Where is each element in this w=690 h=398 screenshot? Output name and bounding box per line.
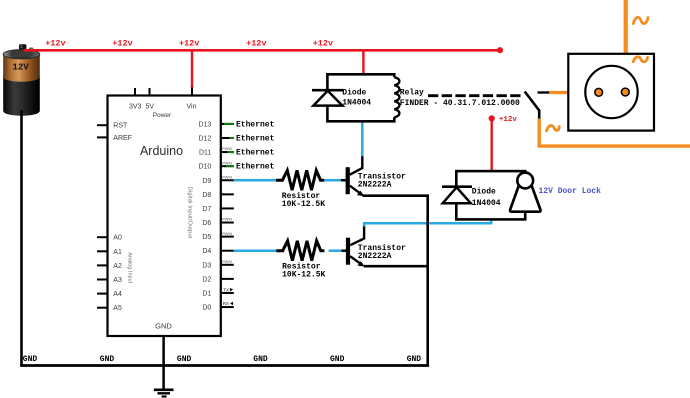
svg-text:GND: GND bbox=[23, 355, 38, 364]
svg-text:RX: RX bbox=[223, 301, 229, 306]
svg-text:A0: A0 bbox=[113, 235, 122, 242]
svg-text:A2: A2 bbox=[113, 263, 122, 270]
svg-text:+12v: +12v bbox=[499, 116, 518, 124]
svg-text:A1: A1 bbox=[113, 249, 122, 256]
svg-text:D12: D12 bbox=[198, 136, 211, 143]
svg-text:D0: D0 bbox=[202, 305, 211, 312]
svg-text:PWM: PWM bbox=[222, 231, 232, 236]
svg-text:D11: D11 bbox=[199, 150, 211, 157]
svg-text:D10: D10 bbox=[198, 164, 211, 171]
svg-text:Ethernet: Ethernet bbox=[236, 120, 275, 129]
svg-text:D6: D6 bbox=[202, 220, 211, 227]
svg-text:Ethernet: Ethernet bbox=[236, 149, 275, 158]
svg-text:PWM: PWM bbox=[222, 259, 232, 264]
svg-text:D4: D4 bbox=[202, 248, 211, 255]
svg-text:PWM: PWM bbox=[222, 160, 232, 165]
svg-text:D9: D9 bbox=[202, 178, 211, 185]
svg-text:Relay: Relay bbox=[400, 89, 424, 98]
svg-text:D8: D8 bbox=[202, 192, 211, 199]
svg-text:D1: D1 bbox=[202, 291, 211, 298]
svg-text:A3: A3 bbox=[113, 277, 122, 284]
svg-text:3V3: 3V3 bbox=[129, 103, 142, 110]
svg-text:Analog Input: Analog Input bbox=[126, 252, 132, 283]
svg-text:A5: A5 bbox=[113, 305, 122, 312]
svg-text:1N4004: 1N4004 bbox=[342, 99, 371, 108]
svg-text:GND: GND bbox=[407, 355, 422, 364]
svg-text:D7: D7 bbox=[202, 206, 211, 213]
svg-text:Ethernet: Ethernet bbox=[236, 135, 275, 144]
svg-text:Ethernet: Ethernet bbox=[236, 163, 275, 172]
svg-text:Arduino: Arduino bbox=[140, 144, 183, 158]
svg-text:D5: D5 bbox=[202, 234, 211, 241]
svg-text:D3: D3 bbox=[202, 262, 211, 269]
svg-text:D13: D13 bbox=[198, 121, 211, 128]
svg-text:TX: TX bbox=[223, 287, 229, 292]
svg-text:PWM: PWM bbox=[222, 217, 232, 222]
svg-text:12V Door Lock: 12V Door Lock bbox=[539, 187, 602, 196]
svg-text:Vin: Vin bbox=[187, 103, 197, 110]
svg-text:Diode: Diode bbox=[472, 187, 496, 196]
svg-text:GND: GND bbox=[155, 322, 172, 331]
svg-text:Power: Power bbox=[153, 112, 172, 119]
svg-text:10K-12.5K: 10K-12.5K bbox=[282, 271, 325, 280]
svg-text:+12v: +12v bbox=[246, 38, 266, 48]
svg-text:2N2222A: 2N2222A bbox=[358, 180, 392, 189]
svg-text:A4: A4 bbox=[113, 291, 122, 298]
svg-text:GND: GND bbox=[177, 355, 192, 364]
svg-text:FINDER - 40.31.7.012.0000: FINDER - 40.31.7.012.0000 bbox=[400, 99, 520, 108]
svg-text:PWM: PWM bbox=[222, 146, 232, 151]
svg-text:+12v: +12v bbox=[112, 38, 132, 48]
svg-text:12V: 12V bbox=[13, 63, 30, 73]
svg-text:2N2222A: 2N2222A bbox=[358, 252, 392, 261]
svg-text:D2: D2 bbox=[202, 276, 211, 283]
svg-text:10K-12.5K: 10K-12.5K bbox=[282, 200, 325, 209]
svg-text:+12v: +12v bbox=[45, 38, 65, 48]
svg-text:RST: RST bbox=[113, 123, 128, 130]
svg-text:GND: GND bbox=[100, 355, 115, 364]
svg-text:GND: GND bbox=[253, 355, 268, 364]
svg-text:Diode: Diode bbox=[342, 89, 366, 98]
svg-text:GND: GND bbox=[330, 355, 345, 364]
svg-text:5V: 5V bbox=[146, 103, 155, 110]
svg-text:+12v: +12v bbox=[179, 38, 199, 48]
svg-text:+12v: +12v bbox=[313, 38, 333, 48]
svg-text:Digital Input/Output: Digital Input/Output bbox=[187, 187, 193, 239]
svg-text:1N4004: 1N4004 bbox=[472, 199, 501, 208]
svg-text:PWM: PWM bbox=[222, 174, 232, 179]
svg-text:AREF: AREF bbox=[113, 135, 132, 142]
